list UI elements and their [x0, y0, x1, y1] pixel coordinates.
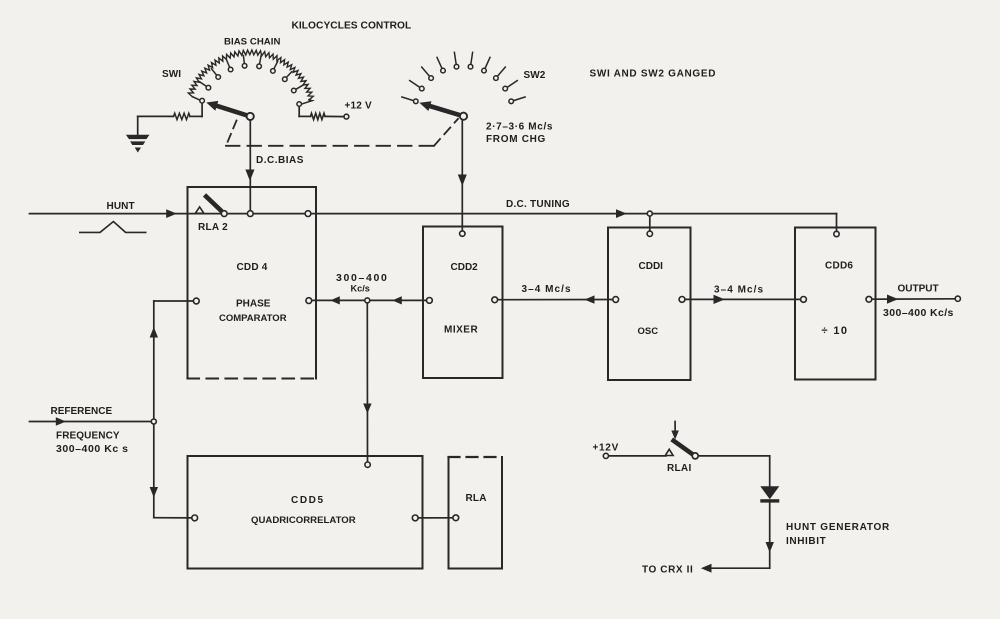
arrowhead D.C. TUNING: [616, 209, 627, 218]
wire RLA1 to diode branch corner: [698, 455, 770, 457]
wire HUNT / D.C. TUNING main horizontal line: [30, 213, 837, 215]
gang linkage dashed horizontal: [226, 145, 434, 147]
arrowhead TO CRX11: [701, 564, 712, 573]
svg-text:INHIBIT: INHIBIT: [786, 536, 826, 547]
svg-text:CDD6: CDD6: [825, 260, 853, 271]
wire CDD4 left terminal to reference vertical: [154, 300, 194, 302]
svg-text:OUTPUT: OUTPUT: [898, 283, 939, 294]
svg-text:300–400 Kc/s: 300–400 Kc/s: [883, 307, 954, 319]
svg-text:÷ 10: ÷ 10: [822, 325, 849, 337]
gang linkage dashed SW2 side: [434, 119, 458, 146]
block CDD1 osc: [608, 228, 691, 381]
svg-text:FREQUENCY: FREQUENCY: [56, 430, 120, 441]
svg-text:CDD5: CDD5: [291, 495, 325, 506]
svg-text:BIAS CHAIN: BIAS CHAIN: [224, 36, 280, 47]
svg-text:SWI AND SW2 GANGED: SWI AND SW2 GANGED: [590, 69, 717, 80]
node CDD4 tuning terminal: [305, 211, 311, 217]
switch SW2 wiper blade: [419, 101, 431, 111]
terminal +12V (RLA1): [603, 453, 608, 458]
gang linkage dashed SW1 side: [226, 121, 237, 146]
relay contact RLA2 blade: [203, 193, 224, 213]
node RLA2 moving contact: [221, 211, 227, 217]
svg-text:RLA: RLA: [466, 493, 487, 504]
node CDD1 top terminal: [647, 231, 652, 236]
svg-text:300–400 Kc s: 300–400 Kc s: [56, 443, 129, 455]
node CDD4 right terminal: [306, 298, 312, 304]
arrowhead mid 300-400 line: [392, 296, 402, 304]
svg-text:TO CRX II: TO CRX II: [642, 564, 693, 575]
svg-text:HUNT GENERATOR: HUNT GENERATOR: [786, 522, 890, 533]
svg-text:FROM CHG: FROM CHG: [486, 134, 546, 145]
arrowhead HUNT input: [166, 209, 177, 218]
wire SW1 wiper down to CDD4 (D.C. BIAS): [249, 120, 251, 187]
wire CDD6 right to OUTPUT terminal: [872, 298, 956, 300]
wire into CDD5 left terminal: [154, 517, 192, 519]
node CDD2 right terminal: [492, 297, 498, 303]
wire SW1 last contact drop and +12V line: [298, 106, 300, 116]
wire REFERENCE input: [30, 421, 154, 423]
switch SW1 wiper blade: [206, 101, 218, 111]
wire junction down to CDD5 top terminal: [366, 303, 368, 462]
resistor R-ground (SW1 low end): [174, 113, 191, 119]
arrowhead hunt inhibit down: [766, 542, 774, 553]
svg-text:QUADRICORRELATOR: QUADRICORRELATOR: [251, 515, 356, 526]
node CDD5 top terminal: [365, 462, 370, 467]
svg-text:OSC: OSC: [638, 326, 659, 337]
svg-text:HUNT: HUNT: [107, 201, 135, 212]
svg-text:RLAI: RLAI: [667, 463, 692, 474]
node CDD6 left terminal: [801, 297, 807, 303]
node RLA1 moving contact: [692, 453, 698, 459]
svg-text:CDDI: CDDI: [639, 261, 664, 272]
relay contact RLA1 actuation line: [674, 422, 676, 433]
arrowhead up to phase comparator: [150, 327, 158, 338]
wire drop into CDD6 top: [836, 214, 838, 232]
terminal +12V (SW1 chain): [344, 114, 349, 119]
wire reference vertical: [153, 301, 155, 518]
svg-text:CDD 4: CDD 4: [237, 262, 268, 273]
svg-text:PHASE: PHASE: [236, 298, 271, 309]
arrowhead D.C. BIAS into CDD4: [245, 170, 254, 182]
svg-text:+12 V: +12 V: [345, 101, 373, 112]
svg-text:3–4 Mc/s: 3–4 Mc/s: [522, 284, 572, 295]
block CDD2 mixer: [423, 227, 503, 379]
node D.C. tuning junction: [647, 211, 652, 216]
switch SW2 wiper pivot: [460, 113, 467, 120]
node CDD5 right terminal: [412, 515, 418, 521]
wire stub to CDD1 top: [649, 214, 651, 232]
arrowhead into CDD4 right (300-400): [330, 296, 340, 304]
arrowhead CDD1 to CDD2: [585, 295, 595, 303]
diode D1: [760, 486, 779, 499]
node CDD5 left terminal: [192, 515, 198, 521]
node RLA left terminal: [453, 515, 459, 521]
wire bottom corner left to CRX11: [704, 567, 770, 569]
svg-text:D.C.BIAS: D.C.BIAS: [256, 155, 304, 166]
ground wire and resistor corner: [138, 115, 174, 117]
relay contact RLA2 fixed contact triangle: [195, 207, 204, 213]
node CDD2 top terminal: [460, 231, 465, 236]
svg-text:COMPARATOR: COMPARATOR: [219, 313, 287, 324]
block CDD6 divide by ten: [795, 228, 876, 380]
bias chain end links: [193, 97, 201, 100]
switch SW1 wiper pivot: [247, 113, 254, 120]
wire CDD4 right terminal to CDD2 left terminal (300-400 Kc/s): [312, 299, 427, 301]
svg-text:MIXER: MIXER: [444, 325, 478, 336]
wire CDD1 right to CDD6 left (3-4 Mc/s): [685, 298, 801, 300]
relay contact RLA1 blade: [670, 437, 694, 456]
switch SW2 contacts: [402, 52, 525, 103]
hunt waveform symbol: [79, 222, 147, 233]
node CDD6 top terminal: [834, 231, 839, 236]
svg-text:D.C. TUNING: D.C. TUNING: [506, 199, 570, 210]
svg-text:Kc/s: Kc/s: [351, 283, 370, 293]
bias chain resistor arc SW1: [188, 50, 313, 100]
wire SW1 first contact drop: [201, 103, 203, 116]
node CDD4 bias junction: [247, 211, 253, 217]
arrowhead down to CDD5 left feed: [150, 487, 158, 498]
arrowhead down to CDD5: [363, 404, 371, 414]
wire diode to bottom corner: [769, 502, 771, 568]
node CDD1 left terminal: [613, 297, 619, 303]
wire +12V to RLA1 contact: [609, 455, 667, 457]
block CDD5 quadricorrelator: [188, 456, 423, 569]
node reference junction: [151, 419, 156, 424]
arrowhead RLA1 actuation: [671, 431, 679, 440]
node CDD2 left terminal: [427, 298, 433, 304]
resistor R-supply (SW1 high end): [311, 113, 326, 119]
node 300-400 junction: [365, 298, 370, 303]
wire CDD2 right to CDD1 left (3-4 Mc/s): [498, 299, 613, 301]
ground symbol: [126, 135, 150, 139]
node CDD6 right terminal: [866, 296, 872, 302]
block RLA: [449, 457, 503, 569]
wire corner down to diode: [769, 456, 771, 487]
arrowhead OUTPUT: [887, 295, 898, 304]
svg-text:+12V: +12V: [593, 443, 619, 454]
switch SW1 contacts: [200, 55, 303, 106]
svg-text:CDD2: CDD2: [451, 262, 479, 273]
block CDD4 phase comparator: [188, 187, 317, 379]
node CDD4 left terminal: [193, 298, 199, 304]
svg-text:300–400: 300–400: [336, 272, 388, 284]
arrowhead SW2 into CDD2: [458, 175, 467, 187]
svg-text:SW2: SW2: [524, 70, 546, 81]
wire SW2 wiper to CDD2 top: [461, 120, 463, 232]
wire junction to CDD4 top inside: [249, 187, 251, 214]
node CDD1 right terminal: [679, 297, 685, 303]
wire CDD5 right terminal to RLA: [418, 517, 453, 519]
svg-text:KILOCYCLES CONTROL: KILOCYCLES CONTROL: [292, 21, 412, 32]
terminal OUTPUT: [955, 296, 960, 301]
svg-text:SWI: SWI: [162, 69, 181, 80]
svg-text:RLA 2: RLA 2: [198, 222, 228, 233]
svg-text:REFERENCE: REFERENCE: [51, 406, 113, 417]
svg-text:2·7–3·6 Mc/s: 2·7–3·6 Mc/s: [486, 121, 553, 132]
svg-text:3–4 Mc/s: 3–4 Mc/s: [714, 284, 764, 295]
arrowhead CDD1 to CDD6: [714, 295, 725, 304]
relay contact RLA1 fixed contact triangle: [665, 449, 673, 455]
arrowhead REFERENCE input: [56, 417, 66, 425]
